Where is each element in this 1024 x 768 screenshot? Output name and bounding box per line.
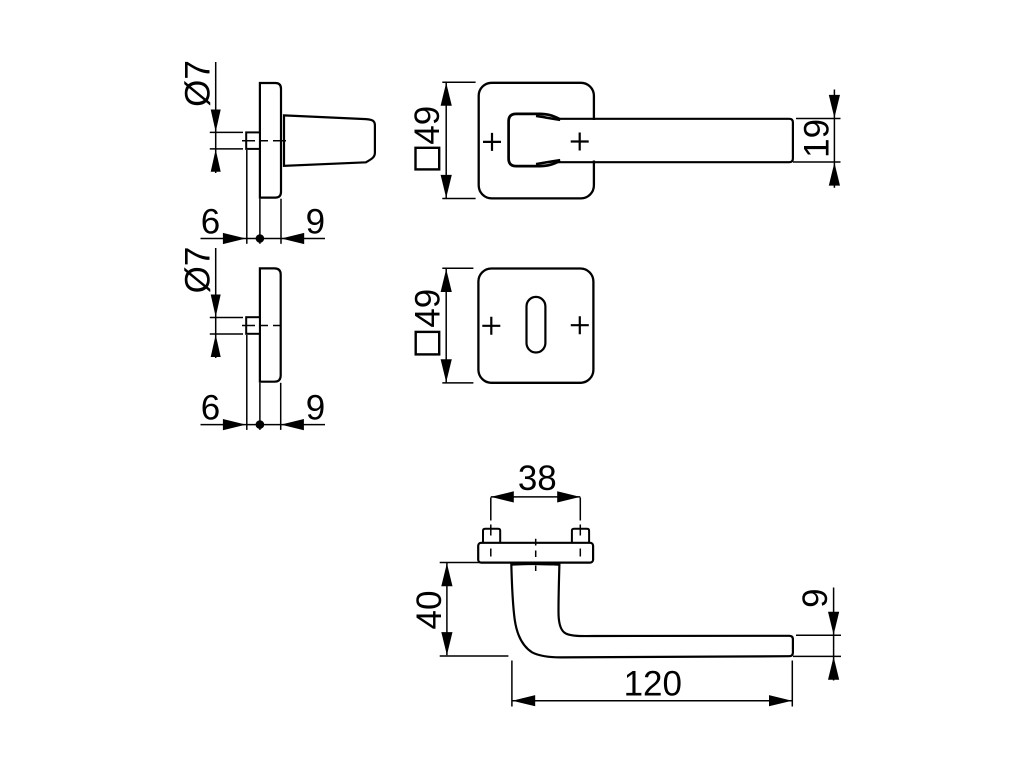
ext E 120 right — [791, 661, 793, 707]
dim C 49 line — [445, 82, 447, 198]
ext C 49 bottom — [442, 198, 475, 200]
grip C outline — [555, 119, 793, 162]
arrow D 49 down — [441, 359, 452, 382]
ext C 49 top — [442, 81, 475, 83]
screw E left — [483, 529, 500, 543]
ext E 40 top — [440, 562, 510, 564]
arrow B d7 up — [211, 335, 221, 357]
svg-text:49: 49 — [408, 289, 447, 328]
screw E right — [572, 529, 589, 543]
svg-text:40: 40 — [410, 591, 449, 630]
label C square symbol — [416, 148, 440, 170]
arrow E 40 down — [441, 632, 452, 655]
tick B d7 bottom — [210, 333, 243, 335]
rose C front — [479, 83, 594, 199]
ext A mid — [259, 199, 261, 244]
svg-text:49: 49 — [408, 106, 447, 145]
centerline E — [535, 539, 537, 571]
arrow A d7 up — [211, 149, 221, 171]
svg-text:38: 38 — [518, 459, 557, 498]
dim E 120 line — [512, 700, 792, 702]
dim D 49 line — [445, 268, 447, 383]
flange E — [478, 543, 593, 563]
spindle A — [246, 132, 260, 149]
arrow E 38 right — [557, 491, 580, 502]
label D square symbol — [416, 332, 440, 355]
arrow E 9 down — [828, 612, 839, 635]
arrow A 9 left — [281, 233, 304, 244]
ext B right — [280, 383, 282, 430]
ext E 40 bottom — [440, 655, 509, 657]
keyhole D — [527, 297, 546, 353]
grip C fill — [550, 120, 792, 161]
arrow C 49 down — [441, 175, 452, 198]
dot B 6-9 — [256, 420, 265, 429]
screw mark C right — [571, 133, 589, 151]
arrow C 49 up — [441, 83, 452, 106]
dim C 19 line — [833, 90, 835, 188]
svg-text:6: 6 — [201, 388, 220, 427]
arrow E 120 right — [769, 695, 792, 706]
arrow A 6 right — [223, 233, 246, 244]
ext A 6 left — [246, 150, 248, 244]
neck E shoulder — [511, 562, 560, 566]
ext D 49 top — [442, 267, 473, 269]
neck C bracket — [509, 114, 560, 166]
tick A d7 top — [210, 131, 243, 133]
tick C 19 bottom — [793, 161, 841, 163]
tick E 9 top — [796, 634, 841, 636]
dim B d7 line — [215, 248, 217, 358]
spindle B — [246, 317, 260, 334]
screw mark C left — [483, 133, 501, 151]
neck C shoulder bottom — [536, 160, 560, 164]
arrow E 9 up — [828, 657, 839, 680]
ext B 6 left — [246, 335, 248, 430]
arrow E 120 left — [512, 695, 535, 706]
screw centerline E right — [579, 498, 581, 557]
dim E 38 line — [491, 496, 581, 498]
dim E 40 line — [446, 563, 448, 656]
ext A right — [280, 199, 282, 244]
centerline A — [242, 140, 288, 142]
arrow C 19 down — [829, 95, 840, 118]
arrow B 6 right — [223, 419, 246, 430]
tick E 9 bottom — [793, 655, 841, 657]
svg-text:6: 6 — [201, 203, 220, 242]
tick C 19 top — [796, 118, 841, 120]
lever neck A side — [284, 115, 375, 165]
arrow E 40 up — [441, 563, 452, 586]
rose D front — [478, 269, 593, 383]
dim A 6-9 line — [201, 238, 326, 240]
arrow B d7 down — [211, 295, 221, 317]
screw centerline E left — [490, 498, 492, 557]
dim B 6-9 line — [201, 424, 326, 426]
arrow D 49 up — [441, 269, 452, 292]
neck C shoulder top — [536, 116, 560, 120]
dim A diameter 7 line — [215, 62, 217, 173]
centerline B — [242, 325, 281, 327]
dot A 6-9 — [256, 234, 265, 243]
screw mark D right — [571, 316, 589, 334]
svg-text:19: 19 — [797, 119, 836, 158]
dim E 9 line — [833, 588, 835, 681]
arrow A d7 down — [211, 110, 221, 132]
rose A side slab — [260, 83, 281, 198]
svg-text:9: 9 — [306, 203, 325, 242]
svg-text:Ø7: Ø7 — [179, 247, 218, 294]
svg-text:9: 9 — [306, 388, 325, 427]
ext E 120 left — [511, 661, 513, 707]
ext B mid — [259, 383, 261, 430]
ext D 49 bottom — [442, 382, 473, 384]
svg-text:Ø7: Ø7 — [179, 60, 218, 107]
svg-text:120: 120 — [624, 665, 682, 704]
svg-text:9: 9 — [796, 588, 835, 607]
arrow B 9 left — [281, 419, 304, 430]
rose B side slab — [260, 268, 281, 381]
tick A d7 bottom — [210, 148, 243, 150]
screw mark D left — [482, 317, 500, 335]
tick B d7 top — [210, 317, 243, 319]
arrow C 19 up — [829, 163, 840, 186]
arrow E 38 left — [491, 491, 514, 502]
handle E body — [511, 564, 793, 658]
